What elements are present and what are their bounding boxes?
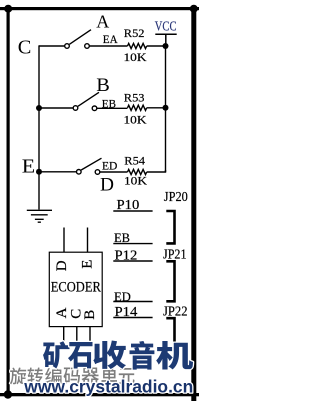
svg-text:D: D [54, 260, 70, 271]
connector JP21 body [166, 261, 174, 301]
VCC rail wire [165, 46, 167, 172]
switch SB lever [78, 92, 99, 106]
junction R53/rail [163, 105, 169, 111]
switch SD contact 1 [77, 170, 82, 175]
pin D stub [63, 228, 65, 253]
net stub P12 [113, 260, 152, 262]
svg-text:R54: R54 [124, 153, 145, 167]
svg-text:EA: EA [103, 32, 118, 46]
svg-text:EB: EB [102, 96, 116, 110]
svg-text:VCC: VCC [155, 20, 177, 35]
switch SD lever [81, 158, 101, 170]
svg-text:E: E [22, 156, 35, 178]
wire row2 [39, 107, 73, 109]
switch SB contact 2 [92, 106, 97, 111]
svg-text:JP20: JP20 [164, 190, 188, 205]
svg-text:D: D [100, 175, 114, 195]
svg-text:B: B [82, 310, 98, 320]
svg-text:JP22: JP22 [163, 305, 188, 320]
wire row3 [39, 171, 77, 173]
wire R53 to rail [147, 107, 166, 109]
connector JP22 body [166, 318, 174, 350]
pin B stub [89, 327, 91, 342]
switch SD contact 2 [95, 170, 100, 175]
wire net ED [100, 171, 128, 173]
switch SA contact 1 [65, 44, 70, 49]
svg-text:P14: P14 [115, 305, 138, 320]
resistor R53 body [128, 105, 147, 110]
VCC power symbol [155, 34, 176, 43]
switch SB contact 1 [73, 106, 78, 111]
svg-text:ECODER: ECODER [51, 279, 101, 295]
svg-text:www.crystalradio.cn: www.crystalradio.cn [23, 377, 193, 397]
wire R52 to rail [147, 45, 166, 47]
svg-text:P10: P10 [117, 198, 140, 213]
svg-text:ED: ED [102, 159, 118, 173]
junction R52/rail [163, 43, 169, 49]
pin C stub [76, 327, 78, 342]
svg-text:EB: EB [114, 230, 130, 245]
wire net EA [89, 45, 127, 47]
resistor R52 body [128, 43, 147, 48]
frame top border [0, 7, 199, 10]
switch SA lever [69, 30, 91, 45]
wire R54 to rail [147, 170, 166, 172]
svg-text:C: C [18, 37, 32, 58]
junction bus/row3 [36, 169, 42, 175]
net stub ED [113, 301, 152, 303]
svg-text:P12: P12 [115, 249, 138, 264]
svg-text:B: B [96, 76, 110, 96]
svg-text:10K: 10K [124, 50, 147, 64]
node C bus wire [38, 45, 40, 209]
pin A stub [63, 327, 65, 342]
svg-text:A: A [96, 11, 109, 31]
svg-text:R52: R52 [124, 26, 145, 40]
ECODER box [49, 252, 102, 326]
svg-text:E: E [79, 260, 95, 269]
svg-text:ED: ED [114, 289, 131, 304]
svg-text:10K: 10K [124, 173, 147, 187]
wire row1 C to switch [39, 45, 65, 47]
svg-text:JP21: JP21 [163, 248, 187, 263]
svg-text:10K: 10K [124, 112, 147, 126]
net stub P10 [113, 210, 152, 212]
pin E stub [87, 228, 89, 253]
ground symbol [27, 210, 52, 222]
wire net EB [97, 107, 128, 109]
svg-text:R53: R53 [124, 91, 145, 105]
junction bus/row2 [36, 105, 42, 111]
net stub P14 [113, 317, 152, 319]
resistor R54 body [128, 169, 147, 174]
net stub EB [113, 243, 152, 245]
watermark big 矿石收音机 [43, 341, 69, 368]
watermark gray 旋转编码器单元 [10, 367, 27, 384]
switch SA contact 2 [85, 44, 90, 49]
connector JP20 body [166, 211, 174, 243]
